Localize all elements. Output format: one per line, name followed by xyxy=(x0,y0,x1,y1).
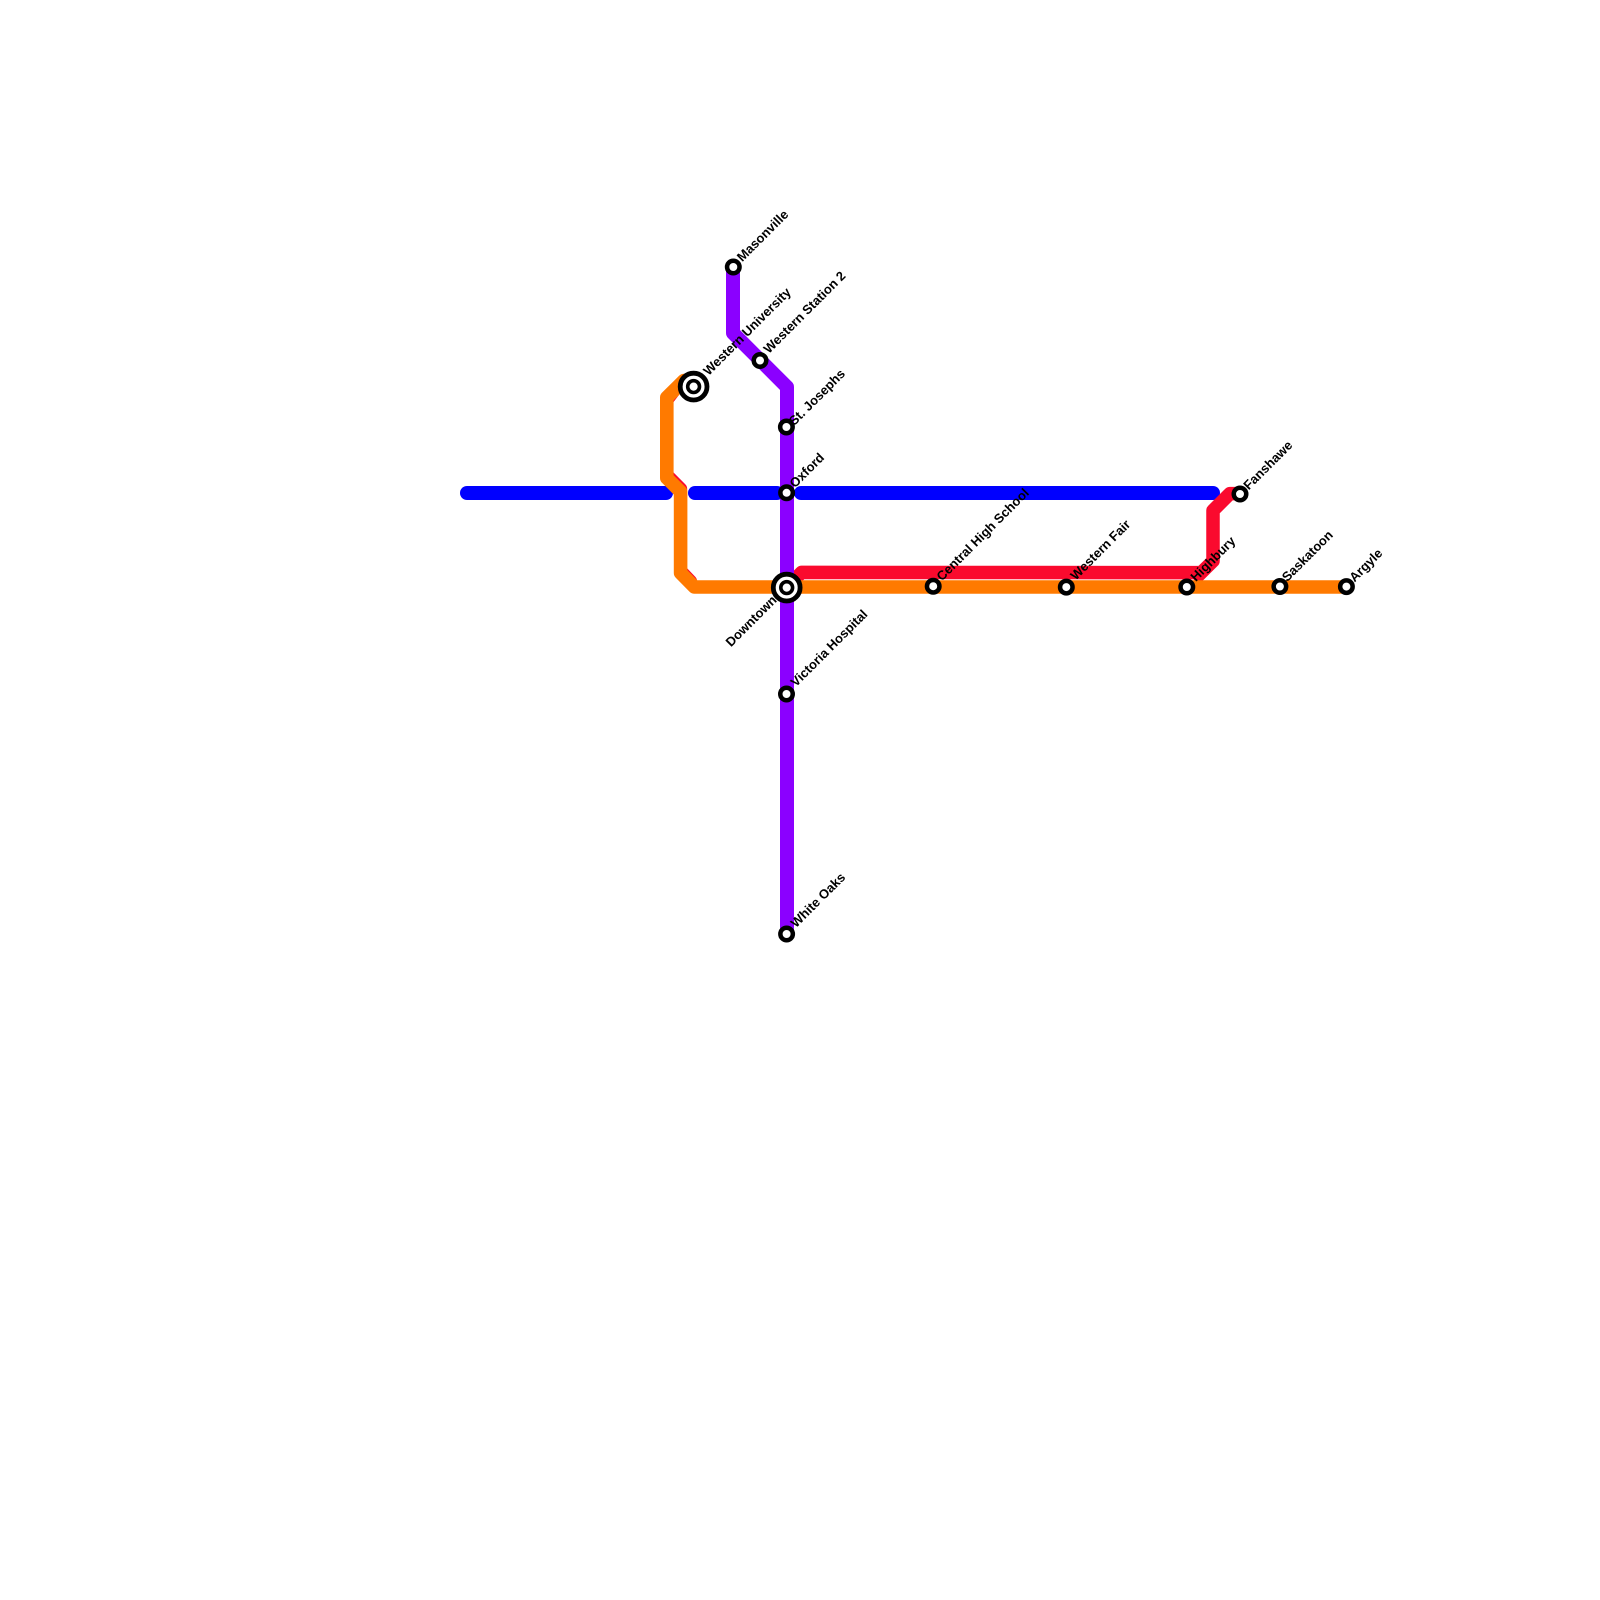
blue line segment middle xyxy=(695,486,777,500)
station Argyle xyxy=(1340,580,1353,593)
station White Oaks xyxy=(780,928,793,941)
interchange Downtown xyxy=(773,574,800,601)
station Highbury xyxy=(1181,581,1194,594)
red line Highbury to Fanshawe xyxy=(1194,494,1242,580)
interchange Western University xyxy=(680,373,707,400)
orange line xyxy=(667,381,1347,588)
station Fanshawe xyxy=(1234,488,1247,501)
station Central High School xyxy=(927,580,940,593)
station Victoria Hospital xyxy=(780,688,793,701)
blue line segment west xyxy=(467,486,666,500)
red sliver under orange at jog bend xyxy=(668,477,680,489)
red sliver under orange at Western University bend xyxy=(668,389,676,400)
purple line xyxy=(733,267,787,935)
station Saskatoon xyxy=(1274,580,1287,593)
station Western Station 2 xyxy=(754,354,767,367)
station St Josephs xyxy=(780,421,793,434)
red sliver under orange at downtown-west bend xyxy=(683,573,691,581)
station Masonville xyxy=(727,261,740,274)
blue line segment east xyxy=(801,486,1213,500)
red line Downtown to east xyxy=(787,572,1204,587)
station Western Fair xyxy=(1060,581,1073,594)
station Oxford xyxy=(780,487,793,500)
